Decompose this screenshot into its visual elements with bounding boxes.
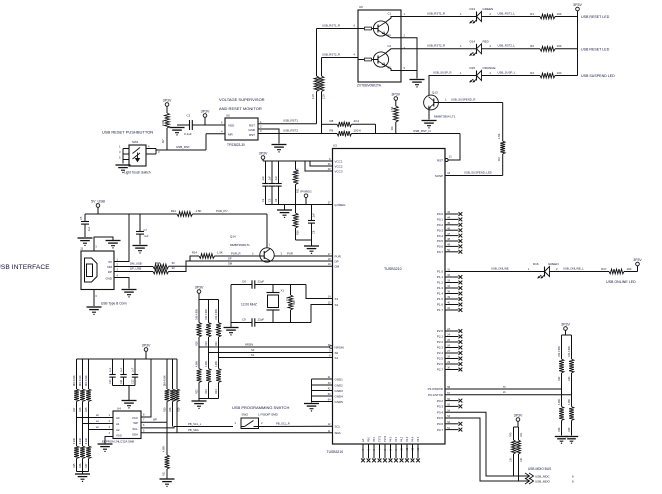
svg-text:100K: 100K: [161, 120, 165, 126]
capacitor C6: [308, 205, 316, 241]
svg-text:PB1: PB1: [373, 437, 376, 442]
svg-text:DP_USB: DP_USB: [130, 266, 141, 270]
svg-text:100K: 100K: [297, 168, 300, 174]
svg-text:P0.6: P0.6: [437, 245, 444, 249]
svg-text:R33: R33: [568, 376, 571, 381]
wire SUSP to U3: [445, 170, 503, 175]
wire VSS: [105, 437, 113, 444]
svg-text:P0.3: P0.3: [437, 228, 444, 232]
svg-text:TST1: TST1: [379, 435, 382, 442]
wire EEPROM 3P3V bus: [77, 358, 178, 360]
svg-text:P3.5: P3.5: [437, 416, 444, 420]
ground (VCC caps): [277, 205, 292, 219]
wire addr ground bar: [77, 472, 89, 474]
svg-text:GND: GND: [248, 128, 256, 132]
svg-text:Light Touch Switch: Light Touch Switch: [124, 171, 151, 175]
U6 collector/emitter stubs: [385, 12, 402, 71]
svg-text:R14: R14: [192, 251, 198, 255]
wire D16 to R17: [550, 266, 610, 271]
svg-text:USB_SUSPEND_LED: USB_SUSPEND_LED: [464, 170, 492, 174]
svg-text:A2: A2: [116, 428, 120, 432]
svg-text:DNI 4.99K: DNI 4.99K: [568, 346, 571, 357]
svg-text:100: 100: [557, 44, 562, 48]
svg-text:R23: R23: [205, 389, 208, 394]
svg-text:R25: R25: [85, 407, 88, 412]
svg-text:12.00 MHZ: 12.00 MHZ: [241, 303, 257, 307]
wire Q14 emitter up: [267, 214, 271, 248]
wire C1 to VDD: [192, 124, 225, 126]
svg-text:.1uF: .1uF: [262, 176, 265, 181]
svg-text:4.99K: 4.99K: [568, 398, 571, 405]
svg-text:P0.1: P0.1: [437, 218, 444, 222]
svg-text:R7: R7: [161, 139, 165, 143]
wire A2: [89, 426, 114, 430]
ground (J1 shield): [106, 241, 121, 249]
wire J1 GND: [114, 278, 129, 289]
svg-text:P4.2: P4.2: [401, 436, 404, 442]
svg-text:VDD: VDD: [228, 123, 235, 127]
svg-text:USB_RST2_R: USB_RST2_R: [322, 52, 340, 56]
resistor R2 100: [530, 44, 577, 51]
svg-text:R11: R11: [296, 188, 300, 193]
svg-text:DNI 4.99K: DNI 4.99K: [196, 309, 199, 320]
svg-text:.1uF: .1uF: [109, 367, 112, 372]
svg-text:4.99K: 4.99K: [196, 360, 199, 367]
wire cap bar: [266, 204, 333, 206]
wire SCL (EEPROM to SW2): [141, 422, 233, 428]
svg-text:TST2: TST2: [384, 435, 387, 442]
ground (U3): [304, 404, 319, 412]
svg-text:U6: U6: [359, 5, 363, 9]
EEPROM address pullups R25 R26 R27 DNI: [73, 359, 91, 430]
svg-text:USB RESET LED: USB RESET LED: [581, 47, 610, 51]
resistor R12 1.5K: [171, 209, 228, 217]
resistor R20 (IpVREG to gnd): [293, 205, 300, 241]
svg-text:R30: R30: [164, 407, 167, 412]
EEPROM U4 24LC32A: [109, 406, 145, 438]
capacitor C9 22pF: [231, 317, 311, 326]
dual transistor U6 ZXTDBV09K2TA body: [358, 5, 401, 82]
label USB INTERFACE: [0, 264, 50, 271]
svg-text:.1uF: .1uF: [313, 213, 316, 218]
wire strap ground bar: [199, 398, 219, 400]
svg-text:.1uF: .1uF: [120, 367, 123, 372]
U3 port P0 pins (NC): [437, 211, 462, 254]
ground (C6): [304, 240, 319, 254]
svg-text:S1: S1: [251, 353, 255, 357]
svg-text:R6: R6: [390, 126, 394, 130]
ground (serial 2): [565, 437, 578, 444]
wire P3.4 to MDC: [445, 412, 529, 476]
label EEPROM 24LC32A SM8: [102, 440, 134, 444]
svg-text:R29: R29: [178, 407, 181, 412]
svg-text:3P3V: 3P3V: [259, 151, 268, 155]
wire S0: [209, 348, 333, 353]
svg-text:USB Type B Conn: USB Type B Conn: [101, 302, 127, 306]
svg-text:C5: C5: [79, 216, 83, 220]
ground (Q13): [422, 121, 437, 129]
resistor R10 2.2K (riser to U6 pin6): [312, 29, 319, 124]
svg-text:GREEN: GREEN: [483, 7, 494, 11]
svg-text:C4: C4: [274, 198, 278, 202]
label USB RESET PUSHBUTTON: [102, 130, 153, 135]
svg-text:S0: S0: [251, 348, 255, 352]
U3 left pin labels: [328, 158, 346, 435]
power flag 3P3V (online LED): [633, 258, 642, 272]
svg-text:PUR: PUR: [335, 254, 342, 258]
svg-text:USB MDIO BUS: USB MDIO BUS: [528, 467, 551, 471]
svg-text:VOLTAGE SUPERVISOR: VOLTAGE SUPERVISOR: [219, 97, 265, 102]
wire X1 to U3: [306, 285, 333, 299]
pullup chain SDA R29: [175, 359, 181, 433]
svg-text:R28: R28: [169, 407, 172, 412]
svg-text:DP: DP: [228, 256, 232, 260]
svg-text:USB RESET PUSHBUTTON: USB RESET PUSHBUTTON: [102, 130, 153, 135]
svg-text:C3: C3: [268, 198, 272, 202]
wire VCC3 branch: [305, 161, 333, 171]
svg-text:4.99K: 4.99K: [215, 360, 218, 367]
svg-text:P3.2: P3.2: [437, 399, 444, 403]
svg-text:MMBT3906LT1: MMBT3906LT1: [230, 243, 250, 247]
svg-text:DNI 4.99K: DNI 4.99K: [205, 309, 208, 320]
svg-text:SCL: SCL: [335, 424, 341, 428]
svg-text:PB_SDA: PB_SDA: [188, 428, 199, 432]
strap pullup resistors R18 R19 R21 DNI 4.99K: [196, 300, 221, 358]
svg-text:U4: U4: [117, 406, 121, 410]
wire 5V rail: [85, 213, 267, 215]
svg-text:R1: R1: [530, 12, 534, 16]
svg-text:P1.4: P1.4: [437, 292, 444, 296]
svg-text:D13: D13: [470, 7, 476, 11]
svg-text:10K: 10K: [297, 213, 300, 218]
capacitor C1 0.1uF: [177, 114, 192, 137]
serial pullups DNI 4.99K: [558, 335, 574, 407]
svg-text:1uF: 1uF: [88, 226, 91, 231]
voltage supervisor U5 TPS3823-30: [221, 114, 262, 141]
svg-text:ORANGE: ORANGE: [483, 66, 496, 70]
capacitor C5: [79, 214, 91, 237]
switch SW2 1 PSIDIP SMD: [235, 413, 279, 429]
svg-text:VCC2: VCC2: [335, 164, 343, 168]
power flag 3P3V (serial straps): [561, 322, 571, 335]
wire X2 to U3: [311, 305, 333, 323]
wire VCC to bus: [141, 359, 151, 417]
svg-text:100: 100: [557, 71, 562, 75]
svg-text:USB_RST: USB_RST: [176, 145, 190, 149]
svg-text:1.5K: 1.5K: [196, 209, 202, 213]
wire U5 RST2 output: [258, 128, 337, 133]
svg-text:33: 33: [172, 266, 176, 270]
svg-text:P3.4: P3.4: [437, 410, 444, 414]
resistor R9 100K: [330, 128, 461, 136]
svg-text:U3: U3: [333, 144, 337, 148]
svg-text:PUR_PU: PUR_PU: [216, 209, 227, 213]
svg-text:4.99K: 4.99K: [80, 438, 82, 444]
svg-text:R35: R35: [73, 463, 76, 468]
power flag 5V_USB: [91, 199, 105, 214]
wire J1 shield to ground: [94, 237, 113, 251]
svg-text:C11: C11: [120, 379, 123, 384]
power flag 3P3V (MDIO pullups): [514, 413, 523, 427]
svg-text:S1: S1: [335, 356, 339, 360]
resistor R11 2.2K (riser to U6 pin4): [319, 58, 325, 134]
svg-text:P4.0: P4.0: [390, 436, 393, 442]
svg-text:.1uF: .1uF: [275, 176, 278, 181]
wire NRSIN: [199, 342, 332, 348]
svg-text:PUR_R: PUR_R: [231, 251, 240, 255]
U6 pin numbers: [354, 12, 406, 70]
svg-text:P0.5: P0.5: [437, 239, 444, 243]
svg-text:USB_MDC: USB_MDC: [535, 475, 551, 479]
svg-text:SW1: SW1: [132, 140, 139, 144]
svg-text:3P3V: 3P3V: [561, 322, 570, 326]
transistor Q13 MMBT3904: [424, 91, 439, 110]
wire S1: [219, 353, 333, 358]
resistor R15 33: [153, 261, 175, 269]
svg-text:4.99K: 4.99K: [205, 360, 208, 367]
svg-text:3P3V: 3P3V: [573, 3, 582, 7]
wire SW1 to MR: [156, 134, 225, 150]
svg-text:DNI 4.99K: DNI 4.99K: [86, 375, 88, 386]
LED D13 GREEN: [470, 7, 494, 23]
resistor R4 100: [530, 71, 577, 78]
svg-text:.1uF: .1uF: [132, 367, 135, 372]
svg-text:VCC: VCC: [132, 416, 138, 420]
svg-text:DM_USB: DM_USB: [130, 261, 142, 265]
svg-text:R24: R24: [215, 389, 218, 394]
svg-text:R19: R19: [205, 341, 208, 346]
svg-text:P1.5: P1.5: [437, 297, 444, 301]
svg-text:R3: R3: [497, 157, 501, 161]
svg-text:IpVREG: IpVREG: [335, 203, 347, 207]
svg-text:R20: R20: [296, 230, 300, 235]
svg-text:1.5K: 1.5K: [217, 251, 223, 255]
svg-text:RED: RED: [483, 40, 490, 44]
U6 base resistor Q2: [358, 58, 378, 61]
svg-text:USB_SUSP_R: USB_SUSP_R: [433, 70, 452, 74]
label Light Touch Switch: [124, 171, 151, 175]
svg-text:PB_SCL_R: PB_SCL_R: [276, 421, 290, 425]
ground (WP pulldown): [160, 479, 175, 487]
ground (C1): [170, 128, 185, 136]
svg-text:P1.0: P1.0: [437, 270, 444, 274]
svg-text:USB_RST1_L: USB_RST1_L: [498, 11, 516, 15]
wire Q13 base: [434, 97, 503, 102]
label USB SUSPEND LED: [581, 74, 615, 78]
svg-text:PB_SCL_L: PB_SCL_L: [188, 422, 202, 426]
svg-text:USB_RST1_R: USB_RST1_R: [322, 23, 340, 27]
svg-text:P3.6: P3.6: [437, 422, 444, 426]
ground (straps): [192, 399, 207, 410]
svg-text:GND3: GND3: [335, 389, 344, 393]
wire D13 to R1: [482, 11, 541, 16]
svg-text:3P3V: 3P3V: [391, 92, 400, 96]
svg-text:USB_RST1: USB_RST1: [283, 119, 298, 123]
bus entry USB_MDO: [525, 478, 574, 484]
wire LED 3P3V rail: [577, 11, 579, 76]
svg-text:P2.5: P2.5: [437, 357, 444, 361]
LED D16 GREEN: [533, 262, 559, 279]
svg-text:P2.3: P2.3: [437, 346, 444, 350]
svg-text:C9: C9: [242, 317, 246, 321]
svg-text:SDA: SDA: [335, 431, 341, 435]
capacitor C8 22pF: [231, 279, 306, 288]
wire DM to U3: [169, 261, 333, 266]
svg-text:R16: R16: [293, 300, 296, 305]
wire U5 GND: [258, 129, 279, 144]
wire U3 ground bus: [312, 379, 333, 403]
svg-text:R26: R26: [79, 407, 82, 412]
svg-text:4.99K: 4.99K: [86, 438, 88, 444]
wire RST net to U3: [448, 134, 460, 161]
resistor R11 100K (3P3V to IpVREG): [293, 161, 300, 205]
svg-text:USB ONLINE LED: USB ONLINE LED: [606, 280, 636, 284]
wire U6 pin3 to D14: [401, 44, 477, 49]
ground (C7): [133, 246, 148, 254]
wire U6 pin6 net label: [317, 23, 359, 28]
ground (addr): [75, 474, 90, 482]
label USB PROGRAMMING SWITCH: [232, 405, 289, 410]
power flag 3P3V (R6): [391, 92, 400, 100]
svg-text:P1.7: P1.7: [437, 308, 444, 312]
svg-text:USB SUSPEND LED: USB SUSPEND LED: [581, 74, 615, 78]
svg-text:R37: R37: [85, 463, 88, 468]
svg-text:USB_MDO: USB_MDO: [535, 480, 551, 484]
svg-text:A1: A1: [116, 422, 120, 426]
svg-text:P3.0/SRXD: P3.0/SRXD: [428, 387, 444, 391]
svg-text:R36: R36: [79, 463, 82, 468]
EEPROM address pulldowns R35 R36 R37: [73, 418, 91, 472]
svg-text:DNI 4.99K: DNI 4.99K: [74, 375, 76, 386]
svg-text:D14: D14: [470, 40, 476, 44]
power flag 3P3V (LED rail): [573, 3, 582, 11]
ground (SW1): [116, 165, 131, 173]
resistor R17 100: [601, 267, 637, 274]
svg-text:5V: 5V: [108, 260, 112, 264]
ground (VSS): [98, 444, 113, 452]
svg-text:P1.3: P1.3: [437, 286, 444, 290]
svg-text:P0.0: P0.0: [437, 212, 444, 216]
power flag 3P3V (EEPROM): [142, 343, 151, 359]
svg-text:SCL: SCL: [132, 427, 138, 431]
svg-text:USB_RST2: USB_RST2: [283, 128, 298, 132]
svg-text:.1uF: .1uF: [269, 176, 272, 181]
svg-text:R32: R32: [558, 376, 561, 381]
svg-text:100 K: 100 K: [354, 128, 362, 132]
svg-text:R8: R8: [330, 119, 334, 123]
power flag 3P3V (U3 VCC): [259, 151, 268, 161]
ground (U6 emitters): [410, 80, 425, 88]
wire strap bus: [199, 299, 219, 301]
label USB_RST net: [176, 145, 190, 149]
ground (crystal): [224, 323, 239, 336]
svg-text:Q14: Q14: [230, 235, 236, 239]
svg-text:R9: R9: [330, 128, 334, 132]
ground (J1 GND): [122, 290, 137, 298]
svg-text:C8: C8: [242, 279, 246, 283]
wire Q14 collector to PUR: [252, 251, 333, 256]
svg-text:IPVREG: IPVREG: [300, 190, 312, 194]
svg-text:P2.1: P2.1: [437, 335, 444, 339]
svg-text:D16: D16: [533, 262, 539, 266]
bus entry USB_MDC: [525, 473, 574, 479]
svg-text:TUSB3210: TUSB3210: [384, 267, 402, 271]
svg-text:J1: J1: [80, 247, 84, 251]
wire VCC2 branch: [310, 161, 333, 166]
svg-text:P1.1: P1.1: [437, 275, 444, 279]
svg-text:USB_RST2_L: USB_RST2_L: [498, 44, 516, 48]
wire Q13 to D15: [429, 70, 477, 95]
IC U3 TUSB3210 body: [327, 144, 446, 454]
label USB ONLINE LED: [606, 280, 636, 284]
svg-text:C6: C6: [312, 230, 316, 234]
svg-text:E2: E2: [388, 66, 392, 70]
svg-text:P3.7: P3.7: [437, 428, 444, 432]
label USB_RST_N: [413, 129, 431, 133]
svg-text:P4.1: P4.1: [395, 436, 398, 442]
svg-text:1.5K: 1.5K: [390, 106, 394, 112]
label USB RESET LED (2): [581, 47, 610, 51]
svg-text:TUSB3210: TUSB3210: [327, 450, 344, 454]
svg-text:.1uF: .1uF: [144, 235, 149, 238]
svg-text:3P3V: 3P3V: [201, 109, 210, 113]
svg-text:22pF: 22pF: [258, 317, 265, 321]
svg-text:GND2: GND2: [335, 383, 344, 387]
svg-text:P4.5: P4.5: [417, 436, 420, 442]
svg-text:C2: C2: [261, 198, 265, 202]
pullup chain WP R30: [164, 359, 170, 422]
U3 SUSP pin: [435, 172, 451, 178]
wire Q13 emitter to ground: [428, 109, 430, 120]
svg-text:2.2K: 2.2K: [312, 94, 315, 99]
label ZXTDBV09K2TA: [357, 84, 382, 88]
svg-text:PB0: PB0: [368, 437, 371, 442]
svg-text:RST: RST: [249, 123, 255, 127]
U3 port P3 pins: [428, 386, 463, 432]
svg-text:PUR: PUR: [287, 251, 293, 255]
resistor R14 1.5K (DP pullup): [190, 251, 260, 261]
svg-text:3P3V: 3P3V: [195, 285, 204, 289]
svg-text:SUSP: SUSP: [435, 174, 443, 178]
wire P3.0: [445, 385, 562, 389]
U3 port P1 pins: [437, 269, 462, 313]
svg-text:3P3V: 3P3V: [142, 343, 151, 347]
svg-text:P4.4: P4.4: [412, 436, 415, 442]
svg-text:DM: DM: [228, 261, 232, 265]
svg-text:P3.1/STXD: P3.1/STXD: [428, 393, 444, 397]
svg-text:P2.6: P2.6: [437, 362, 444, 366]
wire U6 pin4 net label: [322, 52, 359, 57]
svg-text:GND: GND: [105, 276, 113, 280]
svg-text:100: 100: [627, 267, 632, 271]
U3 RST pin: [437, 156, 452, 163]
svg-text:USB_RST1_R: USB_RST1_R: [427, 11, 445, 15]
LED D15 ORANGE: [470, 66, 496, 82]
svg-text:R39: R39: [568, 427, 571, 432]
svg-text:R41: R41: [520, 432, 523, 437]
svg-text:SW2: SW2: [242, 413, 249, 417]
pullup chain SCL R28: [169, 359, 175, 427]
svg-text:SDA: SDA: [132, 433, 138, 437]
svg-text:R31: R31: [163, 471, 166, 476]
svg-text:33: 33: [172, 261, 176, 265]
svg-text:USB_SUSPEND_R: USB_SUSPEND_R: [451, 97, 475, 101]
svg-text:GND5: GND5: [335, 400, 344, 404]
svg-text:C1: C1: [187, 114, 191, 118]
svg-text:NRSIN: NRSIN: [335, 345, 344, 349]
ground (EEPROM caps): [122, 401, 137, 409]
resistor R7 100K: [161, 106, 169, 150]
